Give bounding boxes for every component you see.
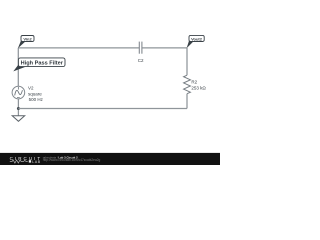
svg-text:http://www.circuitlab.com/c47z: http://www.circuitlab.com/c47zcabt2ea2g xyxy=(43,158,101,162)
svg-text:253 kΩ: 253 kΩ xyxy=(191,85,206,90)
footer logo CIRCUIT xyxy=(10,156,43,161)
svg-text:Vout2: Vout2 xyxy=(191,36,203,41)
svg-text:LAB: LAB xyxy=(32,160,41,164)
wire top from C2 right plate to Vout2 corner xyxy=(142,47,187,49)
svg-text:Vin2: Vin2 xyxy=(23,36,32,41)
footer text url xyxy=(43,158,101,162)
svg-text:R2: R2 xyxy=(191,80,197,85)
ground xyxy=(12,116,25,122)
wire right vertical from R2 bottom to bottom corner xyxy=(186,94,188,109)
svg-text:V2: V2 xyxy=(28,85,34,90)
svg-text:500 Hz: 500 Hz xyxy=(29,97,44,102)
annotation High Pass Filter xyxy=(13,58,65,72)
resistor R2 253 kOhm xyxy=(184,75,207,94)
svg-text:C2: C2 xyxy=(138,58,144,63)
wire from V2 bottom through junction to ground xyxy=(17,99,19,116)
node junction dot xyxy=(17,107,20,110)
footer logo circuit glyph and LAB xyxy=(10,160,41,164)
capacitor C2 xyxy=(138,42,144,63)
footer bar xyxy=(0,153,220,165)
wire left vertical from Vin2 corner down to V2 source xyxy=(17,48,19,86)
svg-text:High Pass Filter: High Pass Filter xyxy=(21,61,64,67)
wire right vertical from Vout2 corner to R2 top xyxy=(186,48,188,75)
wire bottom from junction to R2 bottom corner xyxy=(18,107,187,109)
voltage source V2 square 500 Hz xyxy=(12,85,44,102)
node flag Vin2 xyxy=(18,36,34,49)
svg-text:square: square xyxy=(28,92,42,97)
wire top from Vin2 corner to C2 left plate xyxy=(18,47,139,49)
node flag Vout2 xyxy=(187,35,205,48)
footer text user and title xyxy=(43,155,78,159)
